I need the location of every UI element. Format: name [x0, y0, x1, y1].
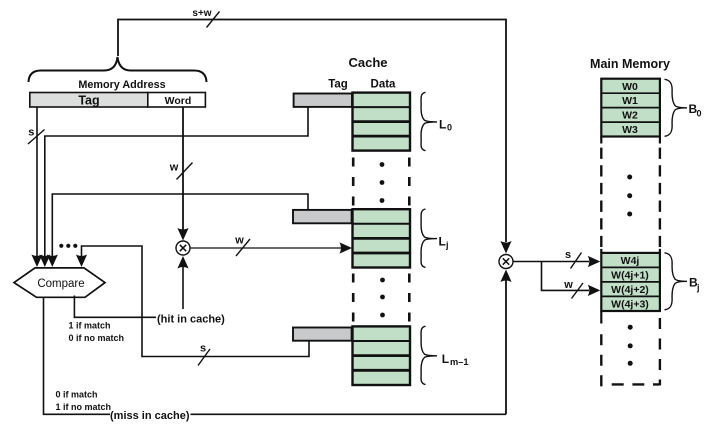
wire miss in cache	[44, 297, 111, 414]
svg-text:Word: Word	[165, 95, 192, 107]
svg-text:Compare: Compare	[37, 278, 84, 290]
labels W0-W3	[622, 81, 638, 136]
svg-text:s+w: s+w	[192, 8, 211, 19]
arrowhead into multiplier top	[500, 241, 511, 254]
wire Lj tag to compare	[52, 194, 308, 256]
svg-text:0: 0	[697, 108, 702, 118]
cache line Lm-1 tag box	[293, 328, 352, 341]
memory address box: Word field	[148, 93, 206, 108]
wire hit in cache	[74, 296, 156, 318]
memory side stubs below B0	[601, 137, 660, 144]
svg-text:W0: W0	[622, 81, 638, 93]
compare hexagon	[14, 268, 105, 297]
svg-text:0: 0	[447, 122, 452, 132]
svg-text:Tag: Tag	[328, 78, 348, 90]
memory dashed sides gap1	[600, 148, 602, 247]
svg-text:1 if match: 1 if match	[69, 321, 111, 331]
svg-text:Cache: Cache	[348, 55, 387, 70]
svg-text:Memory Address: Memory Address	[78, 79, 165, 91]
svg-text:L: L	[439, 234, 446, 248]
memory dots gap1	[627, 175, 632, 217]
svg-text:L: L	[439, 117, 446, 131]
cache line Lm-1 data block	[353, 326, 411, 385]
cache dashed column (gap 1)	[352, 158, 355, 209]
slash w (to cache)	[236, 239, 250, 256]
svg-text:j: j	[445, 240, 449, 250]
brace B0	[665, 79, 688, 136]
svg-text:W3: W3	[622, 124, 638, 136]
wire miss continues to right vertical	[191, 413, 507, 415]
svg-text:(miss in cache): (miss in cache)	[110, 410, 190, 422]
multiplier s+w (x) right	[499, 255, 513, 269]
cache line L0 data block	[353, 93, 411, 151]
slash s bottom	[198, 349, 210, 366]
svg-text:m–1: m–1	[450, 357, 469, 367]
brace memory address	[29, 57, 207, 82]
dots between compare inputs	[59, 244, 77, 248]
brace Bj	[665, 253, 688, 310]
svg-text:Tag: Tag	[78, 93, 99, 107]
wire w to main memory	[542, 262, 590, 291]
svg-text:W(4j+2): W(4j+2)	[611, 284, 649, 296]
svg-text:Data: Data	[371, 78, 397, 90]
svg-text:w: w	[169, 162, 179, 174]
main memory block Bj	[601, 253, 660, 311]
memory dashed sides gap2	[600, 334, 602, 386]
wire s+w top loop	[118, 20, 506, 243]
wire s from tag field to compare	[36, 107, 38, 256]
wire from miss line up into right multiplier	[505, 280, 507, 414]
memory dots gap2	[628, 325, 633, 366]
svg-text:s: s	[565, 249, 571, 261]
memory stubs below Bj	[600, 311, 602, 324]
brace L0	[421, 92, 437, 150]
svg-text:Main Memory: Main Memory	[590, 57, 670, 71]
cache line L0 tag box	[294, 94, 352, 107]
svg-text:(hit in cache): (hit in cache)	[157, 313, 225, 325]
cache line Lj data block	[353, 209, 411, 267]
wire word field down	[182, 107, 184, 230]
svg-text:L: L	[442, 352, 449, 366]
svg-text:W1: W1	[622, 95, 638, 107]
cache dots gap 1	[380, 162, 385, 203]
svg-text:W(4j+3): W(4j+3)	[611, 298, 649, 310]
multiplier word (x)	[176, 241, 190, 255]
main memory block B0	[601, 79, 660, 137]
slash w	[177, 163, 193, 180]
wire L0 tag to compare	[45, 107, 308, 256]
slash s	[28, 130, 45, 145]
brace Lj	[421, 209, 437, 267]
svg-text:W4j: W4j	[621, 255, 640, 267]
brace Lm-1	[421, 326, 437, 384]
svg-text:w: w	[234, 235, 244, 247]
svg-text:s: s	[200, 343, 206, 355]
slash w (memory)	[572, 283, 584, 299]
svg-text:s: s	[28, 127, 34, 139]
svg-text:j: j	[696, 282, 700, 292]
svg-text:1 if no match: 1 if no match	[56, 402, 112, 412]
svg-text:w: w	[563, 279, 573, 291]
svg-text:W(4j+1): W(4j+1)	[611, 269, 649, 281]
labels W4j rows	[611, 255, 649, 311]
slash s (memory)	[571, 253, 582, 269]
memory dashed bottom	[612, 383, 660, 385]
svg-text:W2: W2	[622, 110, 638, 122]
cache dashed column (gap 2)	[352, 274, 355, 325]
wire from hit line up into word multiplier	[182, 267, 184, 309]
wire w to cache line Lj	[190, 247, 341, 249]
svg-text:0 if no match: 0 if no match	[69, 333, 125, 343]
memory stubs above Bj	[601, 249, 660, 253]
slash s+w	[207, 12, 220, 28]
svg-text:0 if match: 0 if match	[56, 390, 98, 400]
wire Lm-1 tag to compare	[82, 246, 310, 357]
cache line Lj tag box	[293, 210, 352, 223]
memory address box: Tag field	[30, 93, 148, 108]
wire s to main memory	[513, 261, 589, 263]
cache dots gap 2	[380, 278, 385, 318]
